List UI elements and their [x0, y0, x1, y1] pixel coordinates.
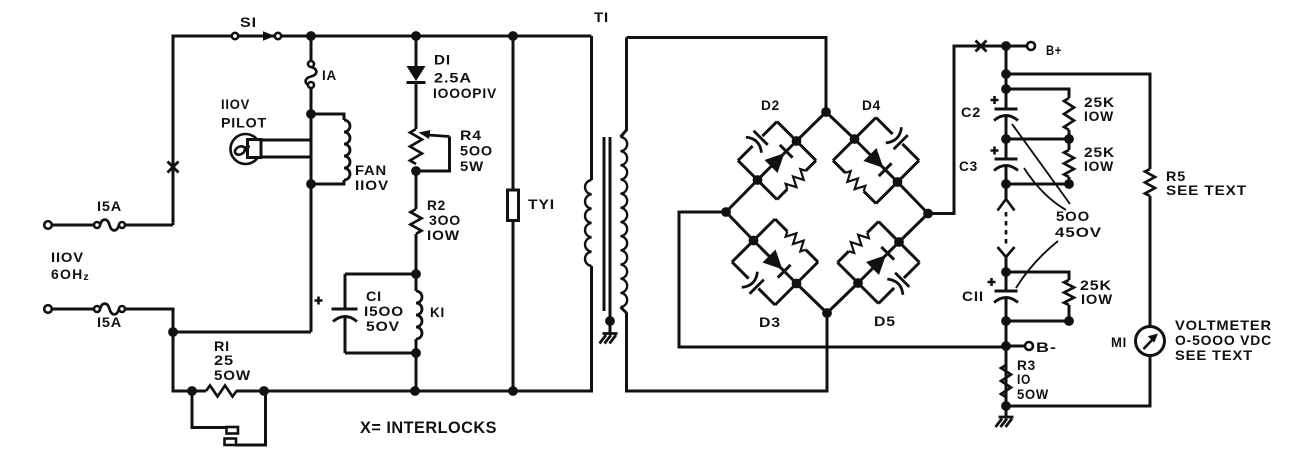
svg-text:IO: IO: [1017, 371, 1031, 387]
svg-text:C2: C2: [961, 104, 981, 120]
svg-text:VOLTMETER: VOLTMETER: [1175, 317, 1272, 333]
svg-text:TYI: TYI: [528, 196, 555, 212]
svg-text:45OV: 45OV: [1055, 224, 1102, 240]
svg-text:D3: D3: [759, 314, 781, 330]
svg-text:IA: IA: [322, 67, 337, 83]
svg-text:D2: D2: [761, 97, 780, 113]
svg-text:I5A: I5A: [97, 314, 122, 330]
svg-text:IIOV: IIOV: [221, 96, 250, 112]
svg-text:IOW: IOW: [1081, 291, 1113, 307]
svg-text:3OO: 3OO: [429, 212, 461, 228]
svg-text:5OO: 5OO: [460, 143, 493, 159]
svg-text:SEE TEXT: SEE TEXT: [1175, 347, 1253, 363]
svg-text:C3: C3: [959, 158, 978, 174]
svg-text:SEE TEXT: SEE TEXT: [1166, 182, 1247, 198]
svg-text:MI: MI: [1111, 334, 1127, 350]
svg-text:R2: R2: [427, 197, 446, 213]
svg-text:5OO: 5OO: [1056, 208, 1090, 224]
svg-text:CI: CI: [366, 288, 382, 304]
svg-text:B+: B+: [1046, 42, 1062, 58]
svg-text:I5A: I5A: [97, 198, 122, 214]
svg-text:B-: B-: [1036, 339, 1057, 355]
svg-text:SI: SI: [240, 14, 257, 30]
svg-text:IIOV: IIOV: [51, 249, 84, 265]
svg-text:R4: R4: [460, 127, 482, 143]
svg-text:5W: 5W: [460, 158, 484, 174]
svg-text:X= INTERLOCKS: X= INTERLOCKS: [360, 419, 497, 437]
svg-text:O-5OOO VDC: O-5OOO VDC: [1175, 332, 1272, 348]
svg-text:I5OO: I5OO: [364, 303, 404, 319]
svg-text:2.5A: 2.5A: [434, 70, 472, 86]
svg-text:D4: D4: [862, 97, 881, 113]
svg-text:5OW: 5OW: [1017, 386, 1049, 402]
svg-text:5OW: 5OW: [214, 367, 251, 383]
svg-text:IOW: IOW: [427, 227, 460, 243]
svg-text:KI: KI: [430, 304, 445, 320]
svg-text:CII: CII: [962, 288, 984, 304]
svg-text:FAN: FAN: [355, 162, 387, 178]
svg-text:IIOV: IIOV: [355, 177, 389, 193]
svg-text:5OV: 5OV: [366, 318, 400, 334]
svg-text:25: 25: [214, 352, 234, 368]
svg-text:DI: DI: [434, 52, 451, 68]
svg-text:PILOT: PILOT: [221, 115, 267, 131]
svg-text:IOW: IOW: [1084, 158, 1114, 174]
svg-text:IOW: IOW: [1084, 108, 1114, 124]
svg-text:D5: D5: [874, 313, 896, 329]
svg-text:IOOOPIV: IOOOPIV: [433, 85, 497, 101]
svg-text:TI: TI: [594, 9, 609, 25]
